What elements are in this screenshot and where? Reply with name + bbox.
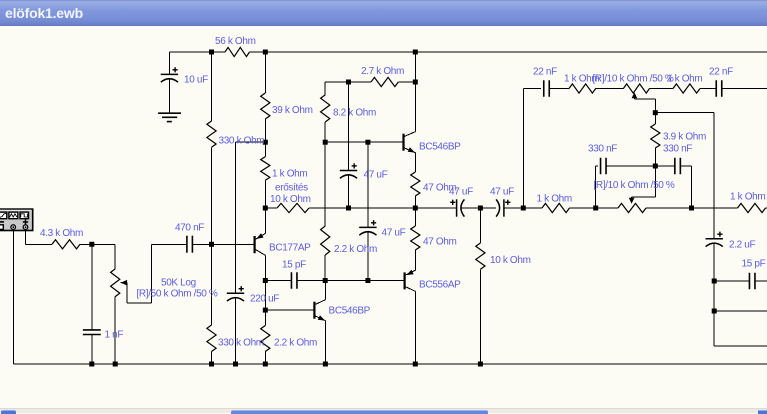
svg-text:47 Ohm: 47 Ohm [423, 237, 456, 248]
svg-text:[R]/10 k Ohm /50 %: [R]/10 k Ohm /50 % [594, 180, 675, 191]
svg-text:2.7 k Ohm: 2.7 k Ohm [361, 66, 404, 77]
svg-text:15 pF: 15 pF [742, 259, 766, 270]
svg-text:4.3 k Ohm: 4.3 k Ohm [40, 228, 83, 239]
svg-text:39 k Ohm: 39 k Ohm [272, 105, 313, 116]
svg-text:47 uF: 47 uF [364, 170, 388, 181]
svg-text:erősítés: erősítés [275, 183, 308, 194]
svg-text:15 pF: 15 pF [282, 260, 306, 271]
svg-text:47 uF: 47 uF [449, 187, 473, 198]
svg-text:[R]/10 k Ohm /50 %: [R]/10 k Ohm /50 % [593, 74, 674, 85]
svg-text:1 k Ohm: 1 k Ohm [730, 192, 765, 203]
svg-text:330 nF: 330 nF [588, 144, 617, 155]
svg-text:2.2 uF: 2.2 uF [729, 240, 755, 251]
svg-text:470 nF: 470 nF [175, 223, 204, 234]
svg-text:1 nF: 1 nF [105, 330, 124, 341]
svg-text:50K Log: 50K Log [161, 278, 196, 289]
svg-text:22 nF: 22 nF [533, 67, 557, 78]
svg-text:330 nF: 330 nF [663, 144, 692, 155]
svg-text:BC546BP: BC546BP [329, 306, 371, 317]
svg-text:56 k Ohm: 56 k Ohm [215, 36, 256, 47]
svg-text:10 k Ohm: 10 k Ohm [270, 194, 311, 205]
svg-text:330 k Ohm: 330 k Ohm [218, 338, 264, 349]
svg-text:BC177AP: BC177AP [269, 243, 311, 254]
svg-text:1 k Ohm: 1 k Ohm [667, 74, 702, 85]
svg-text:[R]/50 k Ohm /50 %: [R]/50 k Ohm /50 % [137, 289, 218, 300]
svg-text:1 k Ohm: 1 k Ohm [272, 169, 307, 180]
svg-text:3.9 k Ohm: 3.9 k Ohm [663, 132, 706, 143]
svg-text:2.2 k Ohm: 2.2 k Ohm [334, 244, 377, 255]
svg-text:22 nF: 22 nF [709, 67, 733, 78]
svg-text:1 k Ohm: 1 k Ohm [537, 194, 572, 205]
svg-text:2.2 k Ohm: 2.2 k Ohm [274, 338, 317, 349]
svg-text:10 uF: 10 uF [184, 75, 208, 86]
svg-text:47 uF: 47 uF [382, 228, 406, 239]
svg-text:10 k Ohm: 10 k Ohm [490, 255, 531, 266]
svg-text:8.2 k Ohm: 8.2 k Ohm [333, 108, 376, 119]
svg-text:BC556AP: BC556AP [419, 280, 461, 291]
svg-text:330 k Ohm: 330 k Ohm [219, 136, 265, 147]
svg-text:47 uF: 47 uF [490, 187, 514, 198]
svg-text:220 uF: 220 uF [250, 294, 279, 305]
svg-text:BC546BP: BC546BP [419, 142, 461, 153]
